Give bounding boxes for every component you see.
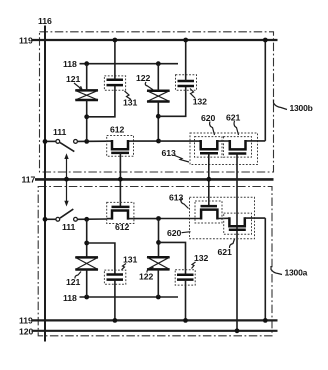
svg-text:121: 121 — [66, 74, 80, 84]
double-headed arrow across 117 — [64, 153, 68, 206]
wire 612 bottom right lead to node — [134, 218, 159, 220]
capacitor 131 (bottom) — [104, 270, 125, 284]
svg-text:131: 131 — [123, 255, 137, 265]
junction 116/switch top — [43, 139, 48, 144]
label 118 (bottom) — [63, 293, 77, 303]
wire 612 top gate to 117 — [119, 153, 121, 207]
label 122 (top) — [136, 73, 153, 90]
label 119 (top) — [19, 35, 33, 45]
svg-text:613: 613 — [162, 148, 176, 158]
junction cap132/119 top — [183, 38, 188, 43]
label 121 (bottom) — [66, 272, 81, 288]
capacitor 131 (top) — [104, 76, 125, 90]
wire bottom 621 right lead down to 119 bottom — [264, 218, 266, 320]
transistor 621 (bottom right) — [224, 213, 266, 234]
label 119 (bottom) — [19, 316, 33, 326]
transistor 612 (top) — [107, 136, 134, 157]
label 132 (top) — [190, 89, 207, 107]
junction 116/switch bottom — [43, 217, 48, 222]
svg-text:122: 122 — [136, 73, 150, 83]
junction node A top — [156, 139, 161, 144]
label 131 (bottom) — [122, 255, 138, 270]
svg-text:121: 121 — [66, 277, 80, 287]
wire 612 right lead to node — [134, 140, 159, 142]
svg-text:620: 620 — [167, 228, 181, 238]
wire node A to 620 — [159, 140, 201, 142]
svg-text:118: 118 — [63, 293, 77, 303]
wire cross-coupled gate line 621-top to 120 — [236, 154, 238, 331]
switch 111 (bottom) label — [62, 222, 76, 232]
junction node A bottom — [156, 216, 161, 221]
box 1300b dash-dot enclosure — [40, 32, 274, 172]
transistor 621 (top) — [224, 137, 266, 158]
svg-text:132: 132 — [194, 253, 208, 263]
label 612 (bottom) — [115, 222, 129, 232]
label 621 (top) — [226, 112, 240, 135]
LC element 122 (bottom) — [147, 257, 170, 269]
junction switch top / X121 column — [84, 139, 89, 144]
label 118 (top) — [63, 59, 77, 69]
wire X122 top lead — [157, 64, 159, 91]
box 1300a dash-dot enclosure — [38, 187, 272, 336]
capacitor 132 (bottom) — [175, 270, 195, 285]
label 131 (top) — [123, 91, 137, 108]
switch 111 (top) label — [53, 127, 67, 137]
wire X122 bottom lead down to transistor row — [157, 102, 159, 142]
svg-text:122: 122 — [139, 272, 153, 282]
svg-text:117: 117 — [22, 175, 36, 185]
wire 621 right lead up to 119 top — [264, 40, 266, 141]
svg-text:116: 116 — [38, 16, 52, 26]
junction X122/cap132 (bottom) — [156, 240, 161, 245]
junction X121/cap131 (bottom) — [84, 241, 89, 246]
wire 118 top stub — [80, 63, 179, 65]
label 612 (top) — [110, 125, 124, 135]
junction cap131/119 bottom — [113, 318, 118, 323]
wire 119 top bus — [32, 39, 278, 41]
LC element 122 (top) — [147, 91, 170, 102]
wire junction to cap131 (top) — [87, 85, 115, 117]
label 132 (bottom) — [192, 253, 209, 269]
label 120 — [19, 326, 33, 336]
wire junction to cap132 (top) — [158, 86, 185, 116]
svg-text:1300b: 1300b — [290, 103, 313, 113]
junction switch bottom / X121 column — [84, 217, 89, 222]
wire X121 bottom lead to switch row — [86, 100, 88, 141]
wire junction to cap132 (bottom) — [159, 242, 186, 274]
label 1300a — [271, 266, 308, 278]
wire X121 bottom lead to 118 bottom — [86, 270, 88, 298]
junction cap132/119 bottom — [183, 318, 188, 323]
junction on 118 bottom at X121 — [84, 295, 89, 300]
junction 621 lead /119 top — [263, 38, 268, 43]
svg-text:111: 111 — [62, 222, 76, 232]
junction X122/cap132 (top) — [156, 114, 161, 119]
label 613 (top) — [162, 148, 190, 162]
wire X121 bottom column — [86, 219, 88, 257]
label 621 (bottom) — [218, 239, 235, 257]
wire 118 bottom stub — [80, 296, 179, 298]
wire cap132 top lead to 119 — [185, 40, 187, 81]
capacitor 132 (top) — [176, 75, 197, 90]
LC element 121 (top) — [75, 90, 98, 100]
label 116 — [38, 16, 52, 26]
junction 612 gates / 117 — [118, 177, 123, 182]
junction on 118 bottom at X122 — [156, 295, 161, 300]
svg-text:620: 620 — [201, 113, 215, 123]
wire 620 top gate to 117 — [208, 153, 210, 206]
wire 117 middle bus — [35, 178, 274, 181]
svg-text:111: 111 — [53, 127, 67, 137]
label 613 (bottom) — [169, 193, 189, 209]
junction gate line / 120 — [235, 328, 240, 333]
svg-text:621: 621 — [218, 247, 232, 257]
junction arrow/117 — [64, 177, 69, 182]
transistor 620 (top) — [195, 137, 230, 158]
dashed box pair (top 620/621) — [190, 133, 258, 165]
svg-text:119: 119 — [19, 316, 33, 326]
junction on 118 top at X122 — [156, 61, 161, 66]
wire cap132 bottom lead to 119 bottom — [185, 280, 187, 321]
junction 620/613 gates on 117 — [206, 177, 211, 182]
wire 119 bottom bus — [32, 319, 278, 321]
label 620 (top) — [201, 113, 215, 135]
transistor 613 (bottom left, mirrored) — [159, 201, 230, 223]
label 121 (top) — [66, 74, 82, 90]
LC element 121 (bottom) — [75, 257, 98, 269]
wire X121 top lead — [86, 64, 88, 91]
label 1300b — [274, 100, 313, 114]
wire junction to cap131 (bottom) — [87, 243, 115, 275]
svg-text:119: 119 — [19, 35, 33, 45]
svg-text:612: 612 — [110, 125, 124, 135]
label 122 (bottom) — [139, 267, 154, 282]
svg-text:621: 621 — [226, 112, 240, 122]
label 620 (bottom) — [167, 228, 191, 238]
junction on 118 top at X121 — [84, 61, 89, 66]
junction bottom 621 lead /119 bottom — [263, 318, 268, 323]
wire X122 bottom column — [158, 219, 160, 258]
svg-text:1300a: 1300a — [285, 268, 308, 278]
dashed box pair (bottom) — [190, 197, 255, 239]
junction cap131/119 top — [113, 38, 118, 43]
svg-text:118: 118 — [63, 59, 77, 69]
wire cap131 bottom lead to 119 bottom — [114, 280, 116, 321]
svg-text:120: 120 — [19, 326, 33, 336]
wire 120 bottom bus — [32, 330, 278, 332]
switch 111 (top) — [45, 140, 107, 152]
junction X121/cap131 (top) — [84, 114, 89, 119]
wire cap131 top lead to 119 — [114, 40, 116, 80]
switch 111 (bottom) — [45, 209, 107, 221]
transistor 612 (bottom, mirrored) — [107, 202, 134, 223]
wire 116 vertical bus — [44, 26, 46, 342]
label 117 — [22, 175, 36, 185]
wire X122 bottom lead to 118 bottom — [157, 269, 159, 297]
